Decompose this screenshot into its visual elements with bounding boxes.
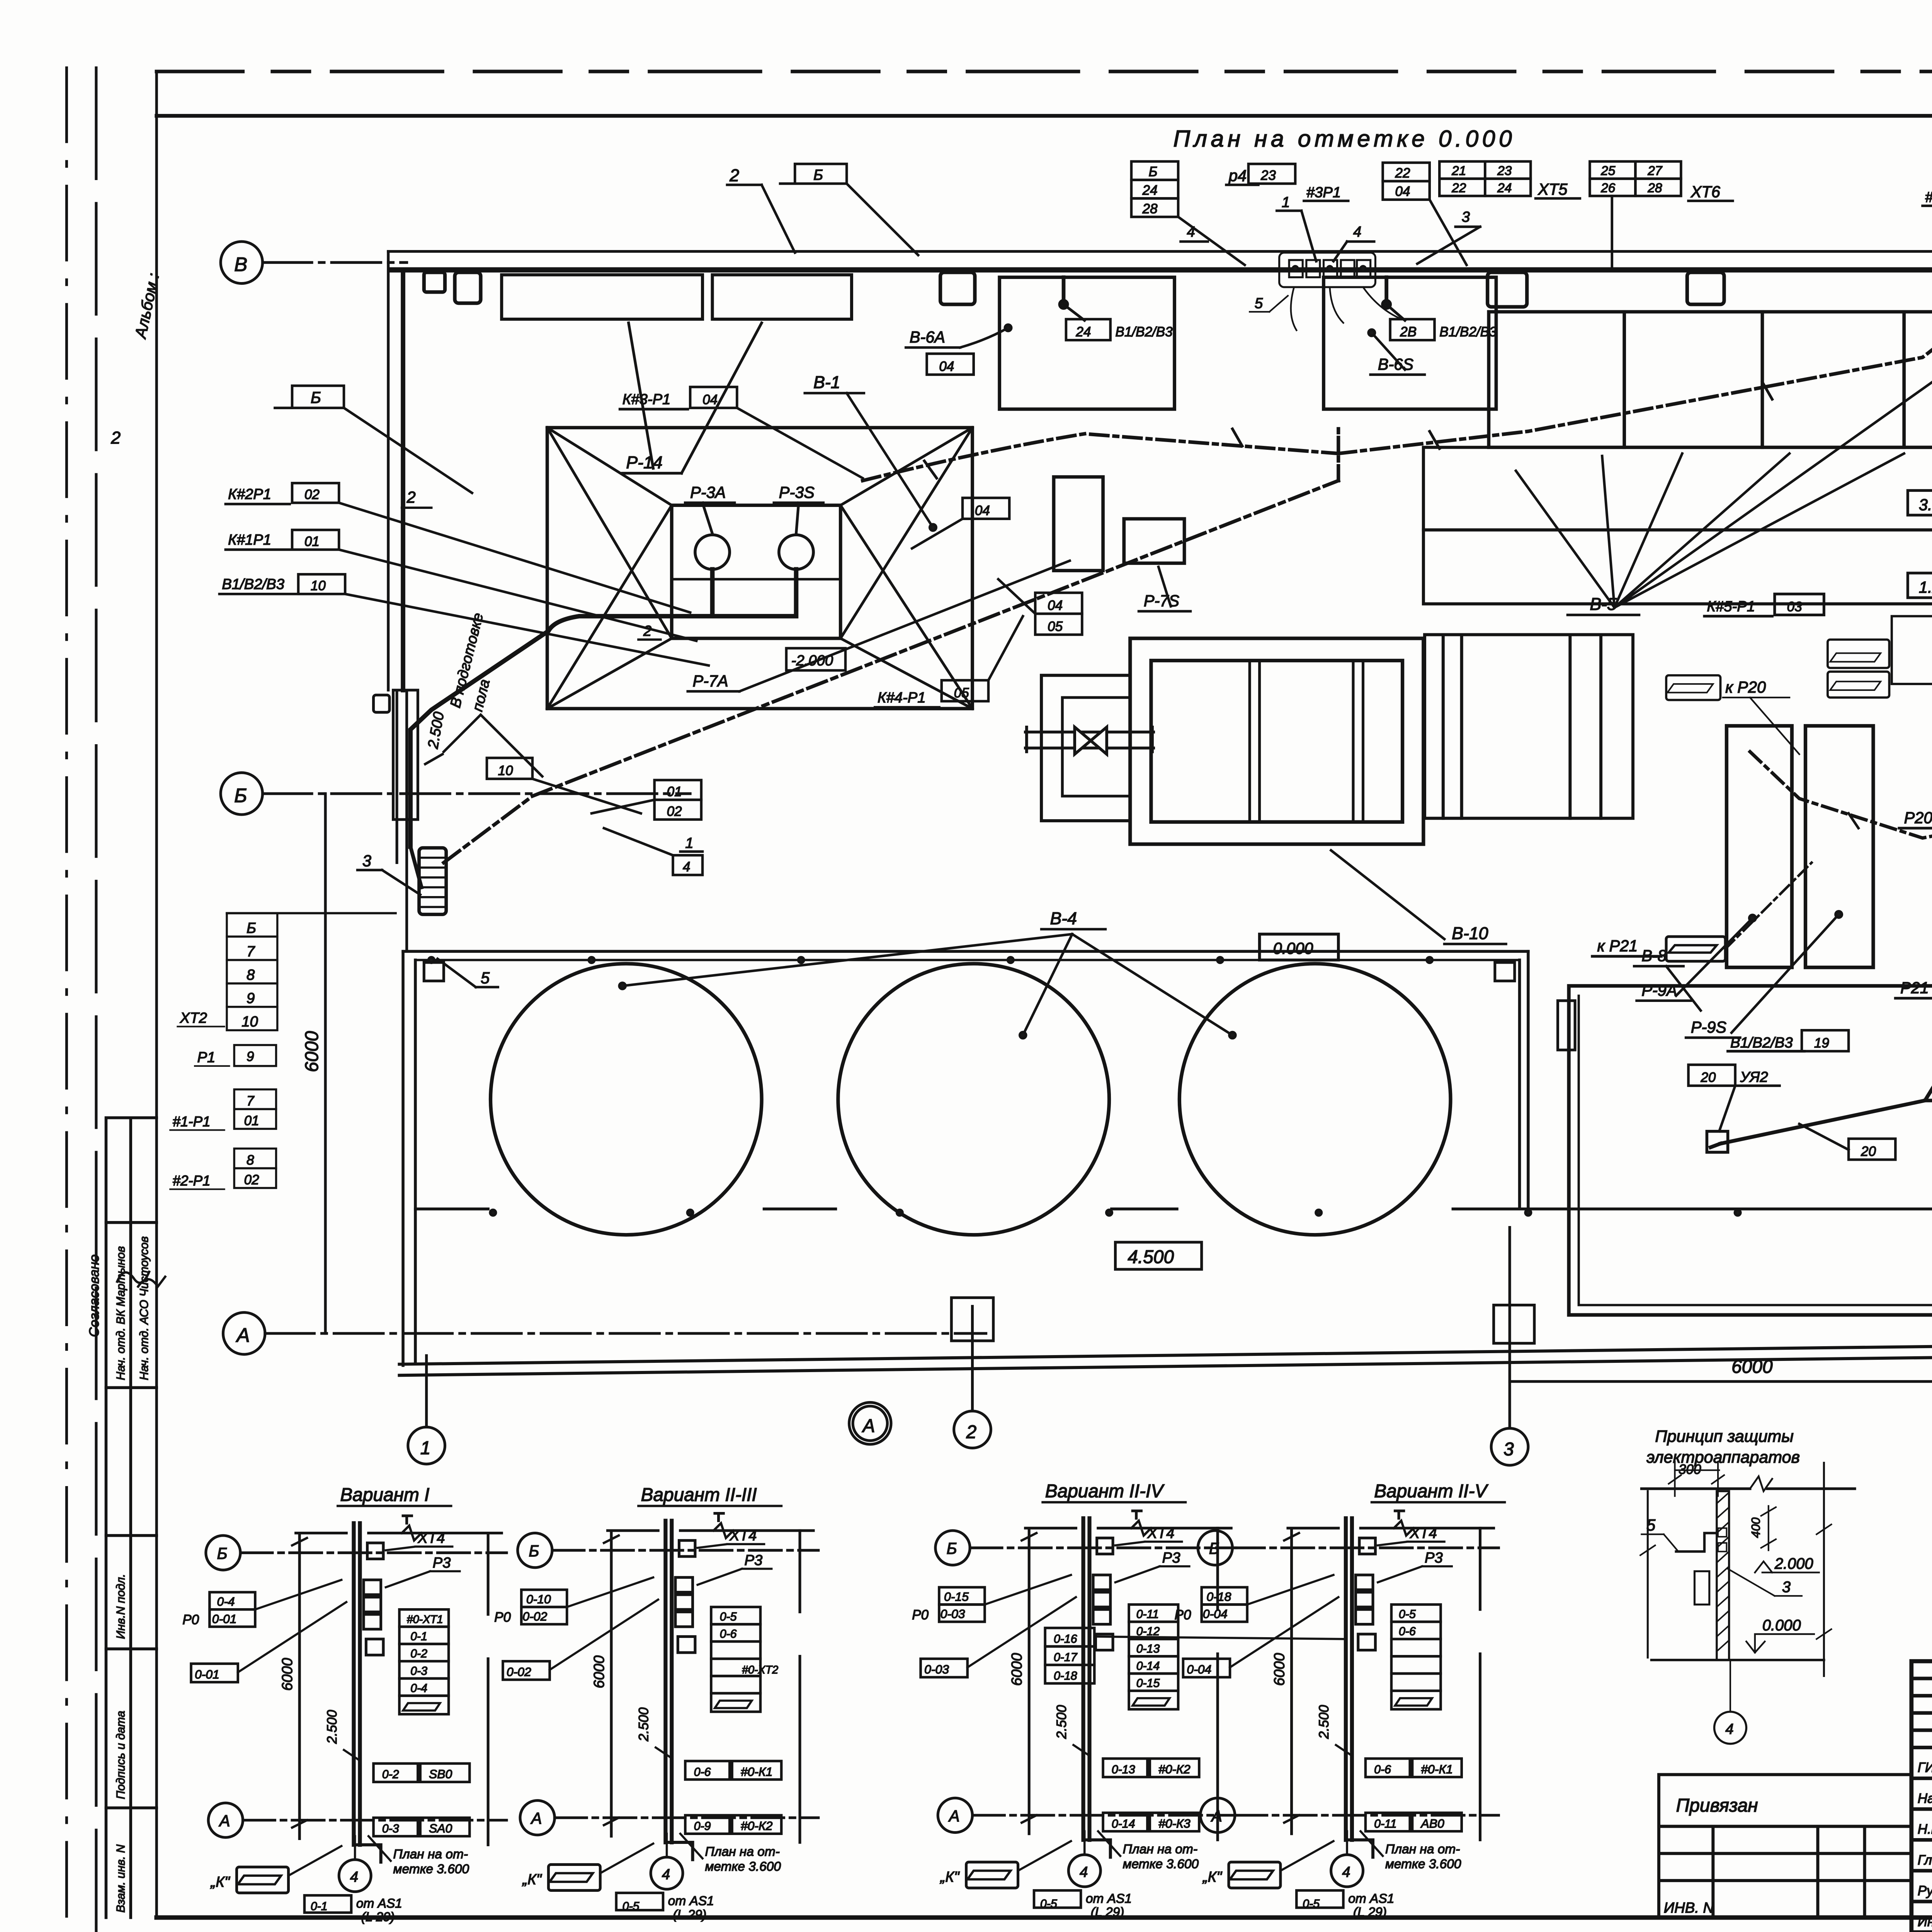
svg-text:0-4: 0-4 bbox=[217, 1595, 235, 1609]
svg-text:Согласовано: Согласовано bbox=[87, 1254, 102, 1337]
label 2В В1/В2/В3 bbox=[1390, 319, 1497, 340]
P-14 rect 1 bbox=[502, 275, 702, 319]
left column labels XT2 bbox=[170, 913, 396, 1189]
svg-text:4: 4 bbox=[1353, 223, 1361, 240]
svg-text:0-4: 0-4 bbox=[410, 1682, 427, 1695]
axis circle А dbl bottom bbox=[849, 1402, 891, 1444]
svg-text:0-16: 0-16 bbox=[1054, 1633, 1077, 1645]
svg-text:Р-14: Р-14 bbox=[626, 453, 662, 472]
В-8 cable polyline bbox=[1707, 1005, 1932, 1152]
svg-text:02: 02 bbox=[304, 487, 320, 502]
svg-text:#0-ХТ2: #0-ХТ2 bbox=[742, 1664, 778, 1676]
svg-text:0-18: 0-18 bbox=[1054, 1670, 1077, 1682]
svg-text:В1/В2/В3: В1/В2/В3 bbox=[1730, 1034, 1793, 1051]
svg-text:8: 8 bbox=[247, 967, 255, 983]
svg-text:Б: Б bbox=[234, 784, 247, 806]
svg-text:В-1: В-1 bbox=[813, 373, 840, 392]
label 3.300 bbox=[1908, 490, 1932, 515]
svg-text:А: А bbox=[236, 1324, 250, 1346]
svg-text:К#5-Р1: К#5-Р1 bbox=[1707, 598, 1755, 615]
svg-text:4.500: 4.500 bbox=[1128, 1247, 1174, 1267]
device rect bbox=[1694, 1571, 1709, 1604]
svg-text:0-2: 0-2 bbox=[382, 1768, 399, 1781]
label Р20 boxes bbox=[1899, 789, 1932, 847]
title block texts bbox=[1918, 1682, 1932, 1932]
svg-text:28: 28 bbox=[1142, 201, 1158, 216]
svg-text:02: 02 bbox=[244, 1172, 259, 1187]
svg-text:Инв.N подл.: Инв.N подл. bbox=[114, 1574, 127, 1639]
hatch boxes к Р20 bbox=[1666, 639, 1889, 700]
variant II-V bbox=[1175, 1481, 1505, 1919]
variant I bbox=[182, 1485, 507, 1925]
P-14 rect 2 bbox=[713, 275, 852, 319]
towers Р-9А Р-9S bbox=[1726, 726, 1792, 968]
svg-text:1: 1 bbox=[1282, 194, 1290, 211]
svg-text:План на отметке 0.000: План на отметке 0.000 bbox=[1173, 126, 1515, 152]
svg-text:5: 5 bbox=[1646, 1516, 1656, 1534]
svg-text:0-3: 0-3 bbox=[410, 1665, 427, 1677]
tank circle 1 bbox=[491, 964, 762, 1235]
svg-text:0-6: 0-6 bbox=[1399, 1625, 1416, 1638]
svg-text:SА0: SА0 bbox=[429, 1821, 452, 1835]
svg-text:10: 10 bbox=[498, 763, 514, 778]
svg-text:В-4: В-4 bbox=[1050, 909, 1077, 928]
svg-text:Б: Б bbox=[247, 920, 256, 936]
bottom wall bbox=[399, 1338, 1932, 1376]
XT6 cluster bbox=[1590, 162, 1733, 269]
svg-text:0-5: 0-5 bbox=[720, 1611, 737, 1623]
svg-text:3: 3 bbox=[1782, 1579, 1791, 1596]
svg-text:В-10: В-10 bbox=[1452, 924, 1488, 943]
rect Р-7S bbox=[1124, 519, 1184, 563]
svg-text:Принцип защиты: Принцип защиты bbox=[1655, 1427, 1794, 1446]
cable mark 2 under pumps bbox=[638, 623, 660, 640]
svg-text:6000: 6000 bbox=[302, 1031, 322, 1072]
cable mark 2 bbox=[111, 429, 121, 447]
label Б box bbox=[275, 386, 472, 493]
svg-text:0-03: 0-03 bbox=[924, 1662, 949, 1676]
label В-65 bbox=[1369, 330, 1425, 374]
svg-text:Рук.гр.: Рук.гр. bbox=[1918, 1883, 1932, 1898]
svg-text:4: 4 bbox=[683, 859, 690, 874]
svg-text:К#4-Р1: К#4-Р1 bbox=[878, 689, 926, 706]
room В-6S bbox=[1323, 277, 1496, 409]
svg-text:0-14: 0-14 bbox=[1136, 1660, 1160, 1673]
big circle tanks room bbox=[403, 951, 1528, 1366]
tank circle 3 bbox=[1179, 964, 1451, 1235]
svg-text:0-13: 0-13 bbox=[1112, 1763, 1135, 1776]
svg-text:Вариант I: Вариант I bbox=[340, 1485, 429, 1505]
label К#3-Р1 04 bbox=[620, 387, 862, 478]
label -2.000 bbox=[786, 648, 845, 670]
rect P15 bbox=[1892, 616, 1932, 705]
svg-text:26: 26 bbox=[1600, 181, 1616, 196]
svg-text:#0-К2: #0-К2 bbox=[741, 1819, 773, 1833]
svg-text:0-6: 0-6 bbox=[694, 1766, 711, 1779]
4 circle bbox=[1714, 1712, 1747, 1744]
label В-10 bbox=[1331, 850, 1506, 944]
ceiling line bbox=[1641, 1488, 1855, 1489]
svg-text:Р-3А: Р-3А bbox=[690, 483, 726, 501]
label В-6А bbox=[906, 325, 1011, 347]
svg-text:5: 5 bbox=[481, 969, 490, 987]
block A4 lower bbox=[1425, 635, 1633, 818]
svg-text:1: 1 bbox=[685, 835, 693, 851]
svg-text:К#3-Р1: К#3-Р1 bbox=[622, 391, 671, 408]
svg-text:7: 7 bbox=[247, 943, 255, 960]
svg-text:0-01: 0-01 bbox=[195, 1667, 219, 1681]
axis circle А bbox=[223, 1313, 986, 1354]
label В-8 bbox=[1634, 947, 1701, 1011]
label box Б top bbox=[780, 164, 918, 255]
cable chase hatched block left bbox=[419, 848, 446, 914]
stair recess left bbox=[374, 690, 418, 820]
svg-text:0-17: 0-17 bbox=[1054, 1651, 1078, 1664]
svg-text:В1/В2/В3: В1/В2/В3 bbox=[222, 576, 284, 592]
svg-text:#2-Р1: #2-Р1 bbox=[173, 1173, 211, 1189]
svg-text:Привязан: Привязан bbox=[1676, 1795, 1758, 1816]
svg-text:23: 23 bbox=[1497, 164, 1512, 178]
svg-text:ГИП: ГИП bbox=[1918, 1760, 1932, 1775]
hatched wall bbox=[1717, 1491, 1729, 1660]
svg-text:Р-7А: Р-7А bbox=[693, 672, 728, 690]
svg-text:1.200: 1.200 bbox=[1919, 578, 1932, 596]
В1/В2/В3 10 bbox=[219, 574, 709, 665]
p4 23 bbox=[1226, 164, 1374, 261]
svg-text:0-6: 0-6 bbox=[1374, 1763, 1391, 1776]
svg-text:Нач. отд. АСО Чистоусов: Нач. отд. АСО Чистоусов bbox=[138, 1236, 151, 1380]
svg-text:0-13: 0-13 bbox=[1136, 1643, 1160, 1655]
box 10 bbox=[487, 758, 641, 813]
axis circle 1 bbox=[408, 1355, 445, 1464]
В подготовке пола rotated bbox=[444, 611, 542, 777]
svg-text:Б: Б bbox=[813, 167, 823, 184]
svg-text:2: 2 bbox=[966, 1422, 977, 1442]
svg-text:Р-7S: Р-7S bbox=[1144, 592, 1180, 610]
variant II-III bbox=[494, 1485, 818, 1922]
svg-text:К#1Р1: К#1Р1 bbox=[228, 532, 271, 548]
svg-text:0-10: 0-10 bbox=[526, 1592, 551, 1606]
pipe and valve bbox=[1026, 727, 1154, 754]
svg-text:05: 05 bbox=[1048, 619, 1063, 634]
svg-text:24: 24 bbox=[1497, 181, 1512, 196]
svg-text:0.000: 0.000 bbox=[1762, 1617, 1801, 1634]
axis circle 3 bbox=[1491, 1228, 1528, 1466]
svg-text:0-14: 0-14 bbox=[1112, 1818, 1135, 1830]
dim 6000 bottom bbox=[1510, 1357, 1932, 1381]
svg-text:0-9: 0-9 bbox=[694, 1820, 711, 1833]
svg-text:0-5: 0-5 bbox=[1040, 1898, 1057, 1910]
svg-text:УЯ2: УЯ2 bbox=[1740, 1069, 1768, 1085]
svg-text:24: 24 bbox=[1142, 183, 1158, 198]
svg-text:0-3: 0-3 bbox=[382, 1823, 399, 1835]
room В-6А bbox=[1000, 277, 1175, 409]
svg-text:электроаппаратов: электроаппаратов bbox=[1646, 1448, 1800, 1467]
svg-text:Подпись и дата: Подпись и дата bbox=[114, 1711, 127, 1799]
label В-1 bbox=[805, 373, 936, 531]
svg-text:#1-Р1: #1-Р1 bbox=[173, 1114, 211, 1129]
label К#5-Р1 03 bbox=[1704, 594, 1824, 616]
label 20 box2 bbox=[1799, 1124, 1896, 1160]
svg-text:0-01: 0-01 bbox=[212, 1612, 237, 1626]
label Р-3А bbox=[685, 483, 735, 533]
svg-text:03: 03 bbox=[1787, 599, 1803, 614]
block A1 top bbox=[1489, 312, 1932, 447]
label 0.000 bbox=[1260, 934, 1338, 960]
heavy floor cable from В-1 bbox=[410, 569, 796, 847]
label Р-9А bbox=[1637, 915, 1756, 1001]
svg-text:0-03: 0-03 bbox=[940, 1607, 965, 1621]
svg-text:ХТ5: ХТ5 bbox=[1537, 180, 1568, 198]
svg-text:В-6А: В-6А bbox=[910, 328, 945, 346]
svg-text:0-11: 0-11 bbox=[1136, 1608, 1159, 1621]
svg-text:В1/В2/В3: В1/В2/В3 bbox=[1115, 325, 1173, 340]
label 5 chase bbox=[437, 959, 498, 987]
svg-text:20: 20 bbox=[1700, 1070, 1716, 1085]
svg-text:19: 19 bbox=[1814, 1036, 1829, 1051]
privyazan box bbox=[1659, 1775, 1912, 1918]
svg-text:В: В bbox=[234, 253, 247, 276]
svg-text:Р1: Р1 bbox=[197, 1049, 215, 1066]
svg-text:0-15: 0-15 bbox=[1136, 1677, 1160, 1690]
door bumps top wall bbox=[424, 254, 1932, 307]
svg-text:0.000: 0.000 bbox=[1273, 939, 1313, 957]
box 04 mid bbox=[912, 498, 1009, 548]
svg-text:8: 8 bbox=[247, 1153, 254, 1168]
boxes 01 02 bbox=[592, 780, 701, 820]
svg-text:#5Р1: #5Р1 bbox=[1925, 189, 1932, 206]
right boundary bbox=[1823, 1463, 1824, 1676]
label Р-3S bbox=[774, 483, 823, 533]
svg-text:10: 10 bbox=[311, 578, 326, 594]
В-5 fan bbox=[1516, 370, 1932, 615]
svg-text:0-02: 0-02 bbox=[507, 1665, 531, 1679]
svg-text:0-15: 0-15 bbox=[944, 1590, 969, 1604]
svg-text:7: 7 bbox=[247, 1094, 255, 1109]
label 1.200 bbox=[1908, 573, 1932, 598]
hall inner bottom line with dots bbox=[415, 1209, 1932, 1344]
svg-text:0-1: 0-1 bbox=[311, 1900, 328, 1913]
svg-text:к Р21: к Р21 bbox=[1597, 937, 1638, 955]
svg-text:2В: 2В bbox=[1400, 325, 1417, 340]
dash route top mid bbox=[863, 434, 1338, 481]
pump circle Р-3А bbox=[695, 535, 730, 569]
dim 6000 left bbox=[302, 794, 325, 1333]
2.500 rotated bbox=[425, 711, 447, 764]
axis circle В bbox=[221, 241, 407, 283]
room В-1 bbox=[547, 428, 972, 709]
svg-text:0-04: 0-04 bbox=[1203, 1607, 1228, 1621]
svg-text:К#2Р1: К#2Р1 bbox=[228, 486, 271, 503]
svg-text:04: 04 bbox=[702, 392, 718, 407]
plan top outer wall bbox=[388, 252, 1932, 493]
svg-text:3.300: 3.300 bbox=[1919, 495, 1932, 514]
dash route diagonal bbox=[444, 481, 1338, 863]
svg-text:2: 2 bbox=[643, 623, 651, 639]
svg-text:Р-3S: Р-3S bbox=[779, 483, 815, 501]
axis circle Б bbox=[221, 773, 690, 815]
svg-text:4: 4 bbox=[1725, 1721, 1733, 1737]
label Р21 boxes bbox=[1895, 964, 1932, 1019]
svg-text:3: 3 bbox=[1462, 209, 1470, 225]
svg-text:SВ0: SВ0 bbox=[429, 1767, 452, 1781]
svg-text:Р-9S: Р-9S bbox=[1691, 1018, 1727, 1036]
rect Р-7А bbox=[1054, 477, 1103, 570]
pump circle Р-3S bbox=[779, 535, 813, 569]
svg-text:АВ0: АВ0 bbox=[1420, 1816, 1444, 1830]
label 1 / 4 bbox=[604, 828, 702, 875]
svg-text:2.000: 2.000 bbox=[1774, 1555, 1813, 1572]
XT5 cluster bbox=[1417, 162, 1580, 264]
svg-text:Вариант II-III: Вариант II-III bbox=[641, 1485, 757, 1505]
svg-text:Р-9А: Р-9А bbox=[1641, 981, 1677, 999]
svg-text:2: 2 bbox=[406, 488, 416, 506]
svg-text:Вариант II-IV: Вариант II-IV bbox=[1045, 1481, 1165, 1502]
label 4.500 bbox=[1115, 1242, 1201, 1269]
svg-text:04: 04 bbox=[939, 359, 954, 374]
svg-text:ХТ6: ХТ6 bbox=[1690, 182, 1721, 201]
#3P1 22 04 bbox=[1304, 163, 1466, 265]
svg-text:01: 01 bbox=[304, 534, 320, 549]
svg-text:Инженер: Инженер bbox=[1918, 1914, 1932, 1929]
ground bbox=[1651, 1660, 1824, 1660]
svg-text:4: 4 bbox=[1187, 223, 1195, 240]
svg-text:400: 400 bbox=[1749, 1517, 1763, 1538]
tank В-10 bbox=[1041, 638, 1423, 844]
svg-text:#0-К1: #0-К1 bbox=[741, 1765, 773, 1779]
label Р-7S bbox=[1139, 567, 1190, 611]
svg-text:9: 9 bbox=[247, 990, 255, 1007]
svg-text:Б: Б bbox=[1149, 164, 1158, 179]
svg-text:к Р20: к Р20 bbox=[1725, 678, 1766, 696]
svg-text:#0-К3: #0-К3 bbox=[1158, 1816, 1190, 1830]
cable mark 2 in В-1 bbox=[402, 488, 432, 508]
svg-text:3: 3 bbox=[362, 852, 371, 870]
variant II-IV bbox=[912, 1481, 1236, 1919]
svg-text:0-5: 0-5 bbox=[1303, 1898, 1320, 1910]
label 2 left bbox=[727, 166, 795, 253]
svg-text:ИНВ. N: ИНВ. N bbox=[1664, 1900, 1714, 1916]
title block bbox=[1912, 1661, 1932, 1932]
label к Р21 bbox=[0, 0, 0, 0]
svg-text:1: 1 bbox=[420, 1438, 431, 1458]
svg-text:Взам. инв. N: Взам. инв. N bbox=[114, 1844, 127, 1912]
svg-text:25: 25 bbox=[1600, 164, 1616, 178]
label В1/В2/В3 19 bbox=[1728, 1030, 1849, 1051]
stack Б 24 28 bbox=[1131, 162, 1245, 265]
svg-text:0-6: 0-6 bbox=[720, 1628, 737, 1641]
svg-text:22: 22 bbox=[1395, 165, 1410, 180]
svg-text:01: 01 bbox=[244, 1113, 259, 1128]
label Р-7А bbox=[688, 561, 1070, 691]
label к Р20 bbox=[1723, 678, 1799, 754]
tick marks route bbox=[924, 382, 1772, 478]
svg-text:0-02: 0-02 bbox=[522, 1609, 547, 1623]
svg-text:Вариант II-V: Вариант II-V bbox=[1374, 1481, 1488, 1502]
extra variant labels 0-16..18 stack bbox=[1045, 1628, 1344, 1684]
svg-text:04: 04 bbox=[975, 503, 990, 518]
svg-text:9: 9 bbox=[247, 1049, 254, 1064]
band A2 bbox=[1423, 447, 1932, 604]
svg-text:21: 21 bbox=[1451, 164, 1466, 178]
svg-text:02: 02 bbox=[667, 804, 682, 819]
pin connector block top center bbox=[1250, 253, 1399, 330]
axis circle 2 bbox=[954, 1306, 991, 1448]
svg-text:Нач.отд.: Нач.отд. bbox=[1918, 1791, 1932, 1806]
svg-text:27: 27 bbox=[1647, 164, 1663, 178]
svg-text:0-04: 0-04 bbox=[1187, 1662, 1211, 1676]
svg-text:Р20: Р20 bbox=[1904, 808, 1932, 827]
svg-text:23: 23 bbox=[1260, 168, 1276, 183]
boxes 04 05 bbox=[998, 579, 1082, 635]
box 04 right of В-6S bbox=[927, 354, 974, 374]
svg-text:А: А bbox=[862, 1416, 875, 1436]
svg-text:Н.контр.: Н.контр. bbox=[1918, 1822, 1932, 1837]
svg-text:-2.000: -2.000 bbox=[791, 652, 833, 669]
svg-text:3: 3 bbox=[1503, 1439, 1514, 1460]
svg-text:0-5: 0-5 bbox=[622, 1900, 639, 1913]
bracket device bbox=[1676, 1533, 1717, 1552]
svg-text:#0-К1: #0-К1 bbox=[1421, 1762, 1453, 1776]
label К#4-Р1 05 bbox=[875, 616, 1023, 707]
svg-text:24: 24 bbox=[1075, 325, 1091, 340]
svg-text:10: 10 bbox=[241, 1014, 258, 1030]
dim 400 bbox=[1768, 1506, 1769, 1550]
svg-text:#0-ХТ1: #0-ХТ1 bbox=[407, 1613, 443, 1626]
svg-text:ХТ2: ХТ2 bbox=[180, 1010, 207, 1026]
svg-text:0-1: 0-1 bbox=[410, 1630, 427, 1643]
В-4 fan bbox=[619, 909, 1236, 1038]
svg-text:Б: Б bbox=[311, 388, 321, 406]
#5P1 12 03 bbox=[1923, 171, 1932, 261]
label 20 УЯ2 bbox=[1689, 1065, 1780, 1131]
P-14 label bbox=[622, 323, 762, 473]
dash route center bbox=[1750, 752, 1932, 838]
svg-text:#0-К2: #0-К2 bbox=[1158, 1762, 1190, 1776]
label 3 chase bbox=[357, 852, 420, 895]
svg-text:01: 01 bbox=[667, 784, 682, 799]
svg-text:5: 5 bbox=[1255, 295, 1263, 311]
plan left wall bbox=[388, 252, 407, 952]
svg-text:05: 05 bbox=[954, 685, 969, 701]
label 24 В1/В2/В3 bbox=[1066, 319, 1173, 340]
svg-text:0-18: 0-18 bbox=[1207, 1590, 1231, 1604]
svg-text:0-11: 0-11 bbox=[1374, 1818, 1396, 1830]
svg-text:0-5: 0-5 bbox=[1399, 1608, 1416, 1621]
svg-text:2: 2 bbox=[729, 166, 739, 185]
svg-text:#3Р1: #3Р1 bbox=[1306, 184, 1341, 201]
svg-text:Гл.спец: Гл.спец bbox=[1918, 1852, 1932, 1867]
svg-text:2: 2 bbox=[111, 429, 121, 447]
svg-text:Нач. отд. ВК Мартынов: Нач. отд. ВК Мартынов bbox=[114, 1246, 127, 1380]
svg-text:6000: 6000 bbox=[1731, 1357, 1773, 1377]
svg-text:0-2: 0-2 bbox=[410, 1648, 427, 1660]
svg-text:04: 04 bbox=[1395, 184, 1410, 199]
svg-text:04: 04 bbox=[1048, 598, 1063, 613]
svg-text:28: 28 bbox=[1647, 181, 1662, 196]
К#2Р1 02 bbox=[226, 483, 690, 612]
left wall line bbox=[1647, 1491, 1648, 1658]
label Р-9S bbox=[1686, 912, 1842, 1038]
left margin column tables bbox=[87, 271, 165, 1917]
svg-text:р4: р4 bbox=[1228, 167, 1247, 185]
tank circle 2 bbox=[838, 964, 1109, 1235]
svg-text:Р21: Р21 bbox=[1900, 979, 1929, 997]
К#1Р1 01 bbox=[226, 530, 696, 641]
svg-text:22: 22 bbox=[1451, 181, 1466, 196]
svg-text:20: 20 bbox=[1861, 1144, 1876, 1159]
